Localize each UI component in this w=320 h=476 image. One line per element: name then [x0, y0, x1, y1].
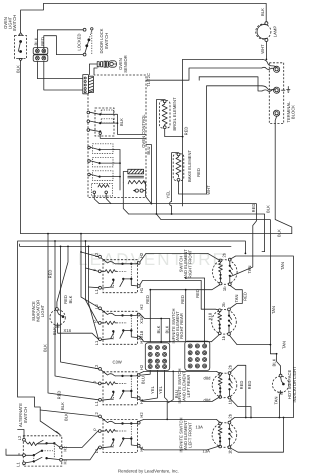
svg-text:LAMP: LAMP — [273, 26, 278, 38]
terminal strip TS2 — [33, 55, 48, 62]
svg-text:RED: RED — [145, 295, 150, 304]
wire YEL grid1 col3 down — [165, 370, 168, 419]
svg-text:H1: H1 — [139, 287, 144, 293]
wire X18 stub H2 box2 — [140, 314, 170, 342]
svg-text:YEL: YEL — [166, 190, 171, 199]
svg-text:X18: X18 — [64, 328, 72, 333]
wire RED broil riser — [182, 59, 184, 136]
wire oven light switch to top bus — [21, 4, 44, 33]
terminal block label — [286, 101, 296, 123]
svg-text:BLK: BLK — [68, 295, 73, 303]
svg-text:L1: L1 — [94, 401, 99, 406]
svg-text:RED: RED — [196, 168, 201, 177]
wire grid2 RED riser — [185, 290, 187, 341]
wire neutral corner — [198, 77, 200, 80]
wire strip to control connector pin4 — [44, 61, 83, 90]
oven control box — [88, 75, 146, 198]
svg-text:RED: RED — [195, 289, 200, 298]
svg-text:SENSOR: SENSOR — [123, 55, 128, 73]
svg-text:Rendered by LeadVenture, Inc.: Rendered by LeadVenture, Inc. — [118, 469, 179, 474]
wire LF bottom left — [140, 446, 220, 450]
feeds to box3 — [61, 246, 99, 368]
svg-text:H2: H2 — [139, 364, 144, 370]
svg-text:L1: L1 — [94, 340, 99, 345]
svg-text:L1: L1 — [15, 462, 20, 467]
wire v4 from LR feed — [168, 371, 173, 402]
svg-text:BROIL ELEMENT: BROIL ELEMENT — [172, 97, 177, 131]
wire v88 — [89, 246, 99, 339]
wire BLU drop — [146, 145, 151, 204]
terminal block — [269, 63, 283, 124]
wire RF bottom right — [229, 285, 242, 309]
wire LR bottom left — [140, 397, 220, 402]
hot surface indicator light — [272, 374, 288, 394]
svg-text:L2: L2 — [94, 304, 99, 309]
wire RF top left — [140, 253, 220, 262]
label infinite switch right rear — [171, 308, 184, 343]
alternate switch label — [18, 403, 28, 427]
surface indicator light label — [31, 300, 45, 323]
svg-text:RED: RED — [180, 295, 185, 304]
svg-text:P: P — [93, 320, 98, 323]
wire broil bottom — [165, 129, 183, 206]
svg-text:WHT: WHT — [206, 185, 211, 195]
sensor plug — [97, 61, 108, 67]
svg-text:BLK: BLK — [119, 118, 124, 126]
svg-text:1b: 1b — [227, 449, 232, 454]
wire LR top left — [140, 371, 220, 373]
svg-text:C3W: C3W — [113, 360, 122, 365]
svg-text:BLK: BLK — [277, 229, 282, 237]
ground symbol — [282, 87, 291, 93]
svg-text:RED: RED — [251, 204, 256, 213]
svg-text:1b: 1b — [221, 335, 226, 340]
svg-text:LOCKED: LOCKED — [77, 33, 82, 50]
wire v85 — [86, 241, 99, 323]
svg-text:TAN: TAN — [281, 341, 286, 349]
wire light bottom X18 — [58, 326, 99, 339]
infinite switch right front — [98, 255, 140, 292]
oven sensor — [109, 61, 117, 67]
wire riser grid1 RED — [149, 290, 151, 342]
wire stair to alternate switch — [18, 397, 60, 435]
wire RED to door lock — [44, 36, 83, 55]
oven lamp — [256, 22, 271, 42]
connector P1 — [83, 75, 94, 94]
wire strip to control connector pin1 — [37, 61, 82, 78]
element left rear — [212, 372, 237, 399]
wire neutral mid — [199, 77, 262, 91]
wire left BLK drop — [20, 61, 22, 234]
svg-text:TAN: TAN — [280, 262, 285, 270]
svg-text:BLK: BLK — [156, 325, 161, 333]
svg-text:BAKE ELEMENT: BAKE ELEMENT — [187, 150, 192, 182]
svg-text:P: P — [93, 428, 98, 431]
wire alt H2 to box4 P — [62, 431, 98, 448]
svg-text:YEL: YEL — [158, 385, 163, 394]
door lock switch label — [99, 28, 109, 53]
svg-text:BLK: BLK — [266, 205, 271, 213]
door lock switch S2 — [77, 28, 94, 56]
connector grid 1 — [145, 343, 169, 371]
svg-text:X18: X18 — [207, 312, 212, 320]
svg-text:BLK: BLK — [260, 8, 265, 16]
svg-text:TAN: TAN — [271, 306, 276, 314]
bus C blk — [156, 214, 270, 345]
wire bake top YEL — [170, 153, 179, 214]
svg-text:BLK: BLK — [164, 325, 169, 333]
wire net417 — [230, 418, 294, 422]
svg-text:INDICATOR LIGHT: INDICATOR LIGHT — [292, 366, 297, 403]
svg-text:TAN: TAN — [247, 265, 252, 273]
svg-text:BLU: BLU — [174, 390, 179, 398]
oven light switch label — [3, 15, 17, 31]
wire lamp neutral line — [183, 58, 263, 60]
wire LF bottom right — [230, 418, 283, 453]
relay contacts upper group — [87, 108, 146, 138]
wire RR bottom right — [229, 335, 276, 354]
wire L2 stub — [18, 430, 24, 439]
bus1 blk — [21, 233, 292, 235]
svg-text:2b: 2b — [222, 252, 227, 257]
infinite switch left rear — [98, 367, 140, 404]
svg-text:OVEN CONTROL: OVEN CONTROL — [141, 114, 146, 148]
svg-text:BLK: BLK — [34, 37, 39, 45]
wire LR top right — [230, 365, 246, 417]
wire hot light bottom TAN — [278, 395, 280, 418]
label switch right front — [179, 249, 193, 279]
terminal strip TS1 — [33, 48, 48, 55]
svg-text:RED: RED — [40, 37, 45, 46]
svg-text:d8d: d8d — [204, 376, 212, 381]
infinite switch left front — [98, 415, 140, 452]
wire LR bottom right — [230, 399, 251, 418]
svg-text:BLK: BLK — [271, 358, 276, 366]
svg-text:WHT: WHT — [260, 44, 265, 54]
wire WHT bake drop — [207, 86, 263, 194]
wire loops into terminal L1 — [262, 59, 277, 69]
svg-text:SWITCH: SWITCH — [104, 33, 109, 49]
wire RF top right TAN — [230, 256, 293, 418]
wire grid2 col3 riser — [186, 278, 205, 344]
wire box4 L2 feed — [40, 410, 98, 416]
oven light switch S1 — [15, 33, 27, 61]
wire loop into terminal N — [262, 86, 275, 92]
svg-text:BLK: BLK — [16, 65, 21, 73]
bus3 — [20, 244, 231, 246]
wire lamp feed — [265, 4, 267, 22]
wire YEL grid1 to box3 H1 — [142, 370, 158, 400]
svg-text:H2: H2 — [63, 446, 68, 452]
wire v81 — [81, 234, 100, 309]
wire RR bottom line X18 — [140, 335, 220, 342]
relay coil K1 — [92, 184, 113, 197]
wire T1T2C to terminal block — [146, 68, 262, 80]
relay contacts lower group — [88, 144, 121, 190]
alternate switch — [23, 436, 63, 466]
wire P stub — [6, 449, 23, 455]
label infinite switch left rear — [177, 368, 191, 403]
svg-text:TAN: TAN — [273, 396, 278, 404]
svg-text:RIGHT REAR: RIGHT REAR — [179, 313, 184, 339]
svg-text:2b: 2b — [227, 364, 232, 369]
svg-text:BLK: BLK — [60, 402, 65, 410]
wire connector to sensor — [89, 64, 97, 75]
label infinite switch left front — [179, 417, 193, 452]
svg-text:LIGHT: LIGHT — [40, 304, 45, 317]
oven sensor label — [118, 55, 128, 73]
svg-text:SWITCH: SWITCH — [23, 407, 28, 423]
surface indicator light — [50, 308, 65, 327]
wire LF top left — [140, 419, 220, 422]
svg-text:LEADVENTURE: LEADVENTURE — [78, 250, 226, 269]
bake element — [173, 153, 184, 181]
svg-text:SWITCH: SWITCH — [12, 15, 17, 31]
infinite switch right rear — [98, 307, 140, 344]
svg-text:RED: RED — [247, 381, 252, 390]
feeds to box1 — [81, 252, 99, 257]
transformer T1 — [123, 169, 145, 188]
svg-text:2b: 2b — [221, 302, 226, 307]
svg-text:BLOCK: BLOCK — [291, 105, 296, 119]
svg-text:RED: RED — [183, 127, 188, 136]
thermal fuse — [134, 189, 146, 192]
svg-text:L2: L2 — [94, 252, 99, 257]
element left front — [212, 421, 237, 448]
element right front — [213, 258, 238, 285]
wire broil top — [156, 100, 164, 214]
wire BLU grid1 to box3 H2 — [141, 370, 150, 375]
svg-text:TAN: TAN — [234, 294, 239, 302]
wire bake bottom WHT — [179, 181, 207, 194]
wire BLK to door lock — [37, 30, 83, 49]
svg-text:BLU: BLU — [141, 376, 146, 384]
wire light top diagonal — [57, 246, 68, 307]
wire alt H1 to box4 L1 — [62, 447, 98, 459]
top bus L1 wire — [44, 3, 267, 5]
broil element — [159, 100, 170, 129]
svg-text:L1: L1 — [94, 289, 99, 294]
svg-text:BLK: BLK — [64, 413, 69, 421]
svg-text:LEFT REAR: LEFT REAR — [186, 375, 191, 398]
svg-text:L2: L2 — [17, 435, 22, 440]
element right rear — [212, 308, 237, 335]
bus2 — [18, 241, 246, 397]
svg-text:LEFT FRONT: LEFT FRONT — [188, 422, 193, 448]
svg-text:RED: RED — [239, 381, 244, 390]
svg-text:13A: 13A — [196, 425, 204, 430]
svg-text:H1: H1 — [63, 458, 68, 464]
svg-text:1b: 1b — [222, 286, 227, 291]
svg-text:BLK: BLK — [52, 327, 57, 335]
connector grid 2 — [185, 341, 210, 370]
wire RF bottom left — [150, 285, 219, 290]
svg-text:2b: 2b — [227, 413, 232, 418]
bus B — [129, 214, 265, 252]
wire box1 H1 to RR top — [140, 280, 220, 310]
svg-text:YEL: YEL — [150, 385, 155, 394]
svg-text:H2: H2 — [139, 412, 144, 418]
hot surface light label — [287, 366, 297, 403]
svg-text:P: P — [93, 268, 98, 271]
wire terminal L2 drop — [275, 116, 292, 233]
svg-text:H2: H2 — [139, 304, 144, 310]
bus A red — [99, 204, 256, 277]
svg-text:BLK: BLK — [42, 344, 47, 352]
svg-text:BLU: BLU — [146, 146, 151, 154]
wire lamp to neutral line — [265, 42, 267, 60]
svg-text:RED: RED — [242, 292, 247, 301]
wire oven control bottom exits — [94, 183, 151, 215]
wire hot light top BLK — [277, 354, 281, 374]
